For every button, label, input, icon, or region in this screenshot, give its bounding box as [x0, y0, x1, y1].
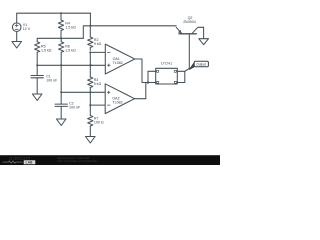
footer bar	[0, 155, 220, 165]
wire to box lower-left pin	[148, 82, 156, 84]
ground below R7	[86, 137, 96, 144]
subcircuit box LTCH1	[156, 68, 178, 84]
resistor R3	[88, 77, 93, 88]
logo squiggle	[3, 161, 23, 163]
logo LAB box	[24, 160, 36, 164]
op-amp OA2	[105, 84, 134, 114]
wire emitter rail	[90, 25, 176, 27]
svg-text:100 nF: 100 nF	[69, 105, 81, 109]
transistor Q2 base wire	[188, 34, 190, 69]
wire down to OA2 minus node	[89, 92, 91, 105]
pin squares	[157, 70, 159, 72]
transistor Q2	[179, 33, 196, 35]
wire box right pins to bracket	[177, 71, 185, 82]
wire C1 to ground	[36, 78, 38, 94]
svg-text:1.5 kΩ: 1.5 kΩ	[41, 49, 52, 53]
svg-text:5 kΩ: 5 kΩ	[94, 82, 102, 86]
wire to OA1 minus input	[90, 51, 105, 53]
svg-text:9 kΩ: 9 kΩ	[94, 42, 102, 46]
node R3 bottom	[89, 91, 91, 93]
svg-text:1.5 kΩ: 1.5 kΩ	[65, 49, 76, 53]
wire node to R7	[89, 105, 91, 115]
wire OA1 output	[135, 59, 148, 83]
pot wiper arrow on plus rail	[90, 64, 93, 67]
wire C2 to ground	[60, 106, 62, 119]
node C2 tap	[60, 91, 62, 93]
ground below C1	[32, 94, 42, 101]
svg-text:Output: Output	[196, 62, 206, 66]
svg-text:2N3904: 2N3904	[183, 20, 196, 24]
wire R6 bottom	[60, 52, 62, 65]
junction arrow into box	[147, 81, 150, 84]
Q2 emitter arrow	[178, 30, 182, 34]
wire R2R3 column	[89, 52, 91, 77]
wire bracket to base column	[185, 69, 190, 72]
svg-text:100 nF: 100 nF	[46, 78, 58, 82]
capacitor C1	[31, 76, 43, 78]
wire R7 to ground	[89, 126, 91, 137]
svg-text:TL082: TL082	[113, 61, 123, 65]
wire C1 top	[36, 65, 38, 75]
ground below V1	[12, 42, 22, 49]
resistor R2	[88, 26, 93, 50]
ground below C2	[56, 119, 66, 126]
node OA2 minus	[89, 104, 91, 106]
op-amp OA1	[105, 44, 134, 74]
output flag	[190, 62, 195, 69]
node R4 top	[60, 12, 62, 14]
wire R3 bottom to rail2	[89, 88, 91, 93]
svg-text:1.5 kΩ: 1.5 kΩ	[65, 26, 76, 30]
wire plus rail 2 to OA2	[61, 91, 105, 93]
wire top rail drop to R2 node	[89, 13, 91, 26]
wire bracket to box left pins	[148, 71, 156, 82]
wire plus rail to OA1	[37, 64, 105, 66]
capacitor C2	[55, 104, 67, 106]
wire jog from R5R6 rail up to R2 node	[83, 26, 90, 39]
svg-text:LAB: LAB	[26, 161, 34, 165]
voltage source V1	[12, 23, 21, 32]
wire V1 to ground	[16, 32, 18, 42]
svg-text:12 V: 12 V	[23, 27, 31, 31]
wire top rail	[17, 13, 91, 22]
wire R5R6 top rail	[37, 38, 83, 42]
wire collector down	[203, 27, 205, 39]
node R4 bottom on rail	[60, 37, 62, 39]
svg-text:TL082: TL082	[112, 100, 122, 104]
node R2 top	[89, 25, 91, 27]
wire C2 top	[60, 92, 62, 104]
node R6 bottom	[60, 64, 62, 66]
svg-text:http://circuitlab.com/c/gpbnfw: http://circuitlab.com/c/gpbnfw	[57, 159, 98, 163]
svg-text:LTCH1: LTCH1	[161, 61, 172, 65]
resistor R7	[88, 116, 93, 127]
wire R5 bottom to plus rail	[36, 52, 38, 65]
resistor R4	[58, 13, 63, 37]
wire R6 column to C2 node	[60, 65, 62, 92]
node C1 tap	[36, 64, 38, 66]
resistor R6	[59, 42, 64, 52]
wire R6 top stub	[60, 38, 62, 42]
node R2 bottom / OA1 minus	[89, 51, 91, 53]
ground arrow at Q2 collector	[199, 39, 209, 45]
wire OA2 output	[135, 83, 146, 99]
svg-text:100 Ω: 100 Ω	[94, 121, 104, 125]
resistor R5	[35, 42, 40, 52]
wire to OA2 minus input	[90, 104, 105, 106]
